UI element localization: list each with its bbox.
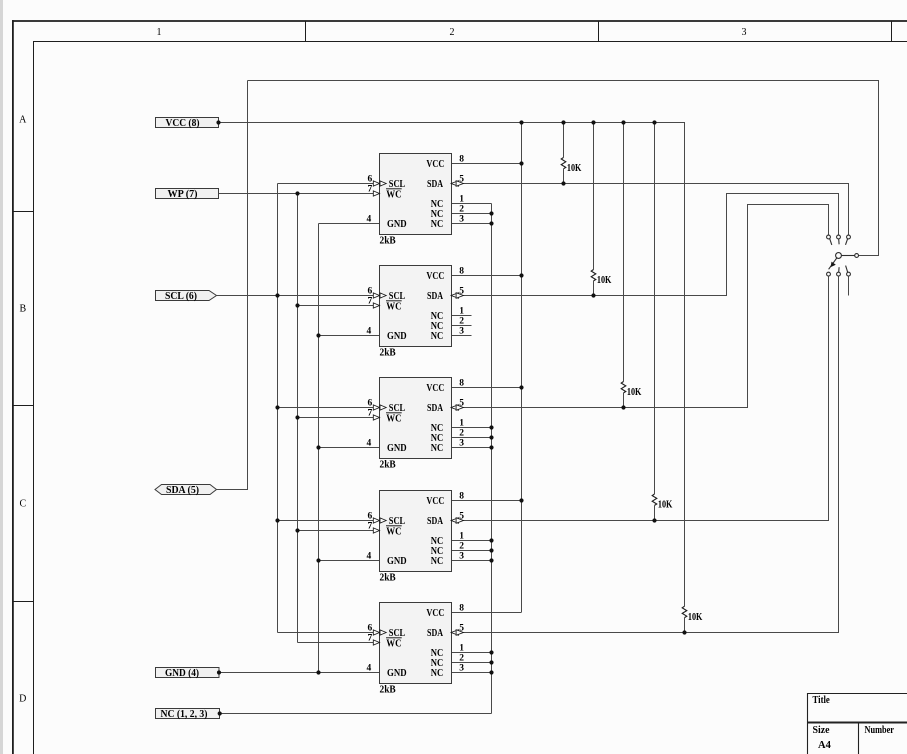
EEPROM U1 2kB: [367, 154, 465, 247]
svg-text:2: 2: [459, 654, 464, 664]
svg-text:10K: 10K: [567, 163, 582, 174]
svg-text:3: 3: [742, 27, 747, 38]
wire: [452, 540, 492, 542]
wire: [452, 163, 522, 165]
svg-text:WC: WC: [386, 413, 401, 425]
svg-text:WC: WC: [386, 189, 401, 201]
wire: [491, 204, 493, 714]
svg-text:GND: GND: [387, 330, 407, 342]
wire: [452, 276, 829, 521]
svg-text:10K: 10K: [627, 387, 642, 398]
wire: [319, 223, 380, 225]
switch common contact: [855, 254, 859, 258]
switch contact top-right: [846, 235, 851, 245]
switch contact bottom-middle: [837, 267, 841, 276]
svg-text:WC: WC: [386, 301, 401, 313]
svg-text:3: 3: [459, 215, 464, 225]
svg-text:2: 2: [459, 317, 464, 327]
svg-text:Size: Size: [813, 725, 830, 736]
wire: [297, 194, 299, 643]
junctions on SCL bus: [275, 293, 279, 522]
svg-text:1: 1: [459, 532, 464, 542]
svg-text:2kB: 2kB: [380, 347, 397, 359]
wire: [521, 123, 523, 613]
svg-text:2: 2: [459, 429, 464, 439]
wire: [318, 224, 320, 673]
svg-text:SDA: SDA: [427, 627, 443, 639]
junctions on VCC rail: [519, 120, 656, 124]
wire: [278, 632, 380, 634]
port GND (4): [156, 668, 220, 679]
wire: [278, 520, 380, 522]
wire: [452, 447, 492, 449]
wire: [452, 194, 839, 296]
wire: [298, 305, 380, 307]
wire: [452, 223, 492, 225]
svg-text:SDA: SDA: [427, 515, 443, 527]
wire: [452, 325, 472, 327]
svg-text:SCL (6): SCL (6): [165, 291, 197, 302]
wire: [298, 530, 380, 532]
wire: [319, 560, 380, 562]
svg-text:VCC: VCC: [426, 270, 444, 282]
wire: [319, 447, 380, 449]
EEPROM U3 2kB: [367, 378, 465, 471]
svg-text:SDA (5): SDA (5): [166, 485, 199, 496]
svg-text:VCC: VCC: [426, 495, 444, 507]
junctions on GND bus: [316, 333, 320, 674]
title block: [808, 693, 907, 754]
wire: [219, 123, 685, 607]
svg-text:7: 7: [368, 184, 373, 194]
port SDA (5): [155, 485, 217, 496]
svg-text:8: 8: [459, 155, 464, 165]
switch contact top-left: [827, 235, 832, 245]
svg-text:NC: NC: [431, 667, 444, 679]
wire: [277, 184, 279, 633]
svg-text:3: 3: [459, 439, 464, 449]
junctions on VCC pin bus: [519, 161, 523, 502]
svg-text:B: B: [19, 303, 26, 314]
wire: [278, 183, 380, 185]
wire: [452, 213, 492, 215]
svg-text:SDA: SDA: [427, 402, 443, 414]
wire: [452, 550, 492, 552]
svg-text:VCC: VCC: [426, 607, 444, 619]
pin direction arrows: [373, 181, 379, 186]
junctions on WC bus: [295, 191, 299, 532]
svg-text:2kB: 2kB: [380, 572, 397, 584]
svg-text:2: 2: [450, 27, 455, 38]
wire: [319, 335, 380, 337]
svg-text:7: 7: [368, 296, 373, 306]
pin direction arrows: [373, 630, 379, 635]
svg-text:4: 4: [367, 552, 372, 562]
svg-text:7: 7: [368, 521, 373, 531]
pin direction arrows: [373, 293, 379, 298]
wire: [452, 387, 522, 389]
EEPROM U5 2kB: [367, 603, 465, 696]
wire: [219, 672, 380, 674]
svg-text:A4: A4: [818, 740, 832, 751]
svg-text:6: 6: [368, 286, 373, 296]
svg-text:NC (1, 2, 3): NC (1, 2, 3): [161, 709, 208, 720]
wire: [220, 713, 492, 715]
wire: [452, 560, 492, 562]
svg-text:2: 2: [459, 205, 464, 215]
wire: [452, 652, 492, 654]
svg-text:6: 6: [368, 398, 373, 408]
wire: [452, 275, 522, 277]
wire: [217, 295, 380, 297]
wire: [452, 662, 492, 664]
svg-text:10K: 10K: [688, 612, 703, 623]
switch wiper arrow: [829, 258, 837, 269]
svg-text:8: 8: [459, 379, 464, 389]
switch pole pivot: [836, 253, 855, 259]
junction at port GND: [217, 670, 221, 674]
svg-text:1: 1: [157, 27, 162, 38]
pin direction arrows: [373, 518, 379, 523]
junction at port NC: [218, 711, 222, 715]
svg-text:8: 8: [459, 604, 464, 614]
svg-text:A: A: [19, 114, 27, 125]
EEPROM U2 2kB: [367, 266, 465, 359]
wire: [452, 315, 472, 317]
resistor R1 10K: [561, 123, 581, 184]
svg-text:GND (4): GND (4): [165, 668, 199, 679]
svg-text:Number: Number: [865, 725, 895, 736]
svg-text:10K: 10K: [658, 500, 673, 511]
svg-text:1: 1: [459, 307, 464, 317]
svg-text:GND: GND: [387, 667, 407, 679]
wire: [248, 81, 879, 256]
svg-text:6: 6: [368, 174, 373, 184]
wire: [298, 417, 380, 419]
wire: [452, 612, 522, 614]
svg-text:7: 7: [368, 633, 373, 643]
svg-text:2kB: 2kB: [380, 459, 397, 471]
svg-text:6: 6: [368, 623, 373, 633]
switch contact bottom-right: [846, 266, 851, 276]
wire: [452, 427, 492, 429]
resistor R2 10K: [591, 123, 611, 296]
svg-text:GND: GND: [387, 442, 407, 454]
svg-text:WC: WC: [386, 638, 401, 650]
wire: [452, 276, 839, 633]
junction at port VCC: [216, 120, 220, 124]
svg-text:VCC (8): VCC (8): [166, 118, 200, 129]
svg-text:WP (7): WP (7): [168, 189, 198, 200]
svg-text:4: 4: [367, 327, 372, 337]
wire: [452, 672, 492, 674]
switch contact bottom-left: [827, 272, 831, 276]
resistor R4 10K: [652, 123, 672, 521]
svg-text:3: 3: [459, 327, 464, 337]
svg-text:NC: NC: [431, 442, 444, 454]
port NC (1, 2, 3): [156, 709, 220, 720]
svg-text:GND: GND: [387, 555, 407, 567]
svg-text:1: 1: [459, 195, 464, 205]
svg-text:1: 1: [459, 419, 464, 429]
svg-text:8: 8: [459, 267, 464, 277]
wire: [452, 203, 492, 205]
wire: [452, 437, 492, 439]
svg-text:NC: NC: [431, 330, 444, 342]
svg-text:VCC: VCC: [426, 158, 444, 170]
wire: [452, 184, 849, 236]
svg-text:10K: 10K: [597, 275, 612, 286]
wire: [219, 193, 380, 195]
svg-text:VCC: VCC: [426, 382, 444, 394]
wire: [217, 81, 248, 490]
port WP (7): [156, 189, 219, 200]
rotary switch SW1: [827, 235, 859, 276]
svg-text:GND: GND: [387, 218, 407, 230]
pin direction arrows: [373, 405, 379, 410]
switch contact top-middle: [837, 235, 841, 244]
wire: [278, 407, 380, 409]
port VCC (8): [156, 118, 219, 129]
svg-text:WC: WC: [386, 526, 401, 538]
port SCL (6): [156, 291, 217, 302]
svg-text:D: D: [19, 693, 26, 704]
wire: [298, 642, 380, 644]
svg-text:7: 7: [368, 408, 373, 418]
wire: [452, 500, 522, 502]
svg-text:SDA: SDA: [427, 178, 443, 190]
svg-text:NC: NC: [431, 218, 444, 230]
junctions on NC bus: [489, 211, 493, 674]
resistor R3 10K: [621, 123, 641, 408]
svg-text:1: 1: [459, 644, 464, 654]
svg-text:6: 6: [368, 511, 373, 521]
svg-text:3: 3: [459, 552, 464, 562]
svg-text:4: 4: [367, 439, 372, 449]
junctions resistor bottoms: [561, 181, 686, 634]
svg-text:8: 8: [459, 492, 464, 502]
resistor R5 10K: [682, 123, 702, 633]
svg-text:2kB: 2kB: [380, 684, 397, 696]
wire: [452, 205, 829, 408]
svg-text:SDA: SDA: [427, 290, 443, 302]
svg-text:4: 4: [367, 664, 372, 674]
svg-text:4: 4: [367, 215, 372, 225]
svg-text:3: 3: [459, 664, 464, 674]
svg-text:C: C: [19, 498, 26, 509]
EEPROM U4 2kB: [367, 491, 465, 584]
wire: [452, 335, 472, 337]
svg-text:2: 2: [459, 542, 464, 552]
svg-text:2kB: 2kB: [380, 235, 397, 247]
svg-text:NC: NC: [431, 555, 444, 567]
wire: [848, 276, 850, 296]
svg-text:Title: Title: [813, 695, 831, 706]
